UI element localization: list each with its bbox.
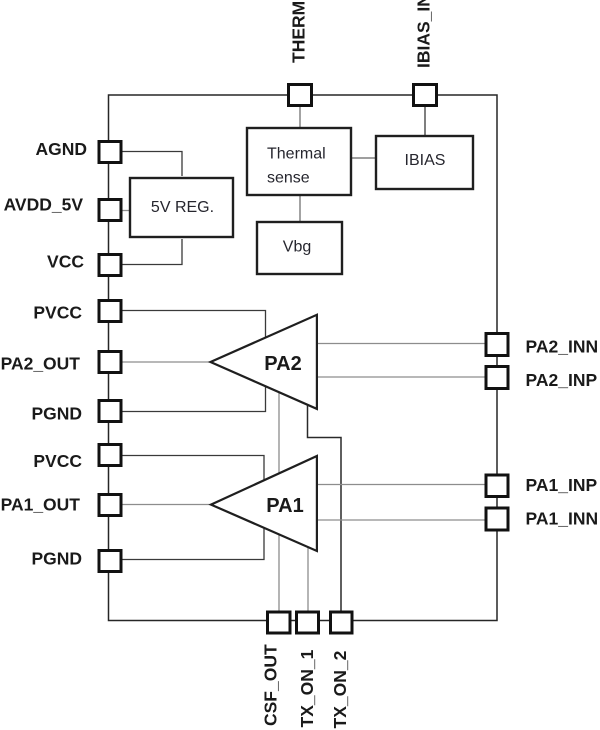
pin PVCC upper square xyxy=(99,301,121,322)
pin PA2_OUT square xyxy=(99,352,121,373)
svg-text:IBIAS: IBIAS xyxy=(405,152,446,169)
svg-text:PA1_OUT: PA1_OUT xyxy=(1,495,81,515)
wire TX_ON_2 from PA2 xyxy=(308,403,342,612)
svg-text:Thermal: Thermal xyxy=(267,146,326,163)
wire PVCC PGND loop at PA2 xyxy=(121,311,266,412)
svg-text:Vbg: Vbg xyxy=(283,239,311,256)
pin PA1_OUT square xyxy=(99,495,121,516)
op-amp PA2 xyxy=(211,315,317,409)
svg-text:TX_ON_2: TX_ON_2 xyxy=(330,650,350,728)
chip outline xyxy=(109,95,498,621)
svg-text:AVDD_5V: AVDD_5V xyxy=(4,195,84,215)
wire IBIAS_IN stub xyxy=(424,105,426,137)
svg-text:PA2_INN: PA2_INN xyxy=(526,337,599,357)
pin IBIAS_IN square xyxy=(414,85,437,106)
wire Thermal sense to Vbg xyxy=(299,194,301,223)
svg-text:CSF_OUT: CSF_OUT xyxy=(261,644,281,726)
pin PVCC lower square xyxy=(99,445,121,466)
svg-text:PA2: PA2 xyxy=(264,353,301,375)
block 5V REG xyxy=(130,178,233,237)
wire PA1_INP xyxy=(317,484,486,486)
wire PVCC PGND loop at PA1 xyxy=(121,456,264,560)
svg-text:5V REG.: 5V REG. xyxy=(151,199,214,216)
wire CSF_OUT vertical xyxy=(278,391,280,612)
svg-text:PVCC: PVCC xyxy=(33,451,82,471)
wire PA2_OUT to apex xyxy=(121,361,213,363)
wire PA1_INN xyxy=(317,519,486,521)
pin CSF_OUT square xyxy=(268,612,291,633)
svg-text:PVCC: PVCC xyxy=(33,302,82,322)
pin PA2_INP square xyxy=(486,367,508,389)
wire PA2_INP xyxy=(317,376,486,378)
wire THERM stub xyxy=(299,105,301,129)
pin PA2_INN square xyxy=(486,334,508,356)
pin PA1_INN square xyxy=(486,508,508,530)
svg-text:IBIAS_IN: IBIAS_IN xyxy=(414,0,434,68)
svg-text:VCC: VCC xyxy=(47,252,84,272)
svg-text:PGND: PGND xyxy=(31,549,82,569)
svg-text:AGND: AGND xyxy=(35,139,87,159)
svg-text:PA1_INN: PA1_INN xyxy=(526,508,599,528)
block IBIAS xyxy=(376,136,473,189)
block Vbg xyxy=(257,222,342,274)
pin AGND square xyxy=(99,142,121,163)
wire AGND to 5V REG xyxy=(121,152,182,177)
op-amp PA1 xyxy=(211,456,317,551)
svg-text:PA1: PA1 xyxy=(266,495,303,517)
svg-text:TX_ON_1: TX_ON_1 xyxy=(297,649,317,727)
pin PGND lower square xyxy=(99,551,121,572)
pin AVDD_5V square xyxy=(99,200,121,221)
svg-text:PA2_INP: PA2_INP xyxy=(526,370,598,390)
svg-text:sense: sense xyxy=(267,169,310,186)
pin PGND upper square xyxy=(99,401,121,422)
pin PA1_INP square xyxy=(486,475,508,497)
svg-text:PA2_OUT: PA2_OUT xyxy=(1,354,81,374)
pin TX_ON_1 square xyxy=(297,612,319,633)
svg-text:PA1_INP: PA1_INP xyxy=(526,475,598,495)
pin THERM square xyxy=(289,85,312,106)
wire VCC to 5V REG xyxy=(121,239,182,265)
wire AVDD_5V stub xyxy=(121,210,131,212)
wire PA2_INN xyxy=(317,343,486,345)
wire TX_ON_1 vertical xyxy=(307,545,309,612)
svg-text:THERM: THERM xyxy=(289,1,309,63)
svg-text:PGND: PGND xyxy=(31,404,82,424)
pin TX_ON_2 square xyxy=(331,612,353,633)
wire Thermal sense to IBIAS xyxy=(350,157,377,159)
wire PA1_OUT to apex xyxy=(121,504,214,506)
pin VCC square xyxy=(99,255,121,276)
block Thermal sense xyxy=(247,128,351,195)
